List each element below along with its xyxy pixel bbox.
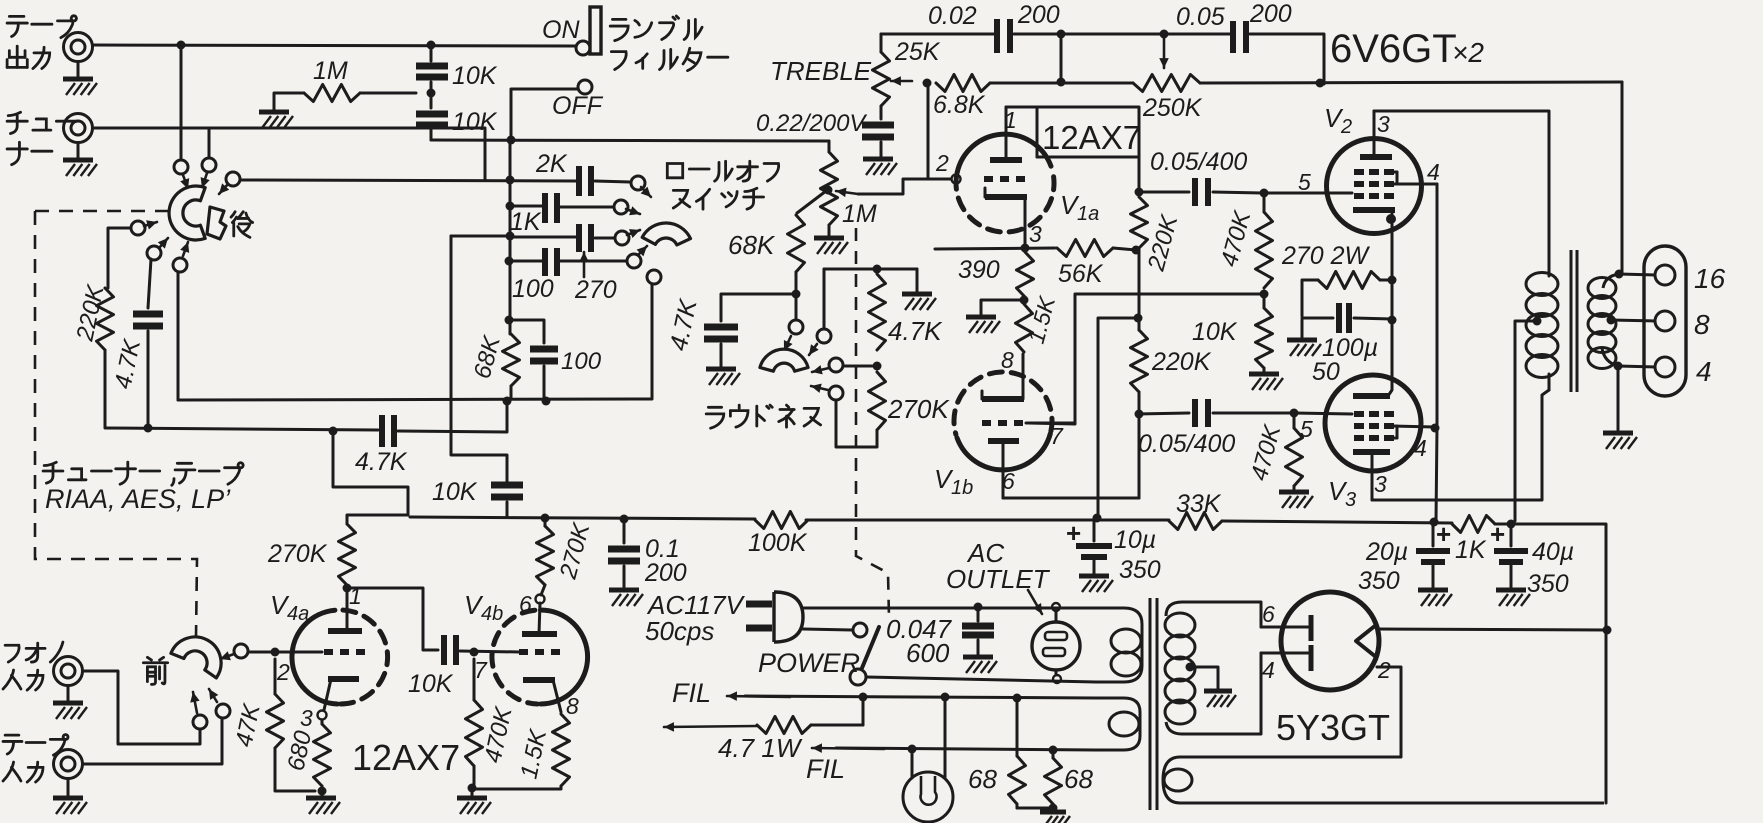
contact selector r4 [131, 220, 157, 235]
svg-text:4b: 4b [481, 603, 503, 625]
label 4.7K coupling [355, 448, 408, 476]
label 100K [748, 529, 808, 557]
wire EQ bus y428 [105, 428, 378, 430]
node top bus to selector [177, 41, 186, 50]
label AC OUTLET [946, 538, 1051, 614]
node V4a plate [343, 584, 352, 593]
wire 0.05 down [1250, 34, 1324, 84]
node bus 40u [1507, 520, 1516, 529]
svg-text:270 2W: 270 2W [1281, 242, 1371, 270]
wire screen drop V2 [1436, 184, 1439, 428]
contact rolloff 4 [627, 246, 647, 268]
svg-text:4.7K: 4.7K [355, 448, 408, 476]
svg-text:350: 350 [1119, 556, 1161, 584]
wire B+ to bus [1098, 318, 1138, 516]
wire AC neutral run [866, 677, 1096, 682]
wire 100cap branch [509, 320, 544, 343]
wire 16 tap [1619, 274, 1655, 275]
wire 1K row [510, 205, 543, 208]
label V2 [1324, 103, 1352, 138]
capacitor 0.047/600 [962, 607, 997, 673]
svg-text:3: 3 [1029, 221, 1042, 247]
node 8ohm [1607, 316, 1616, 325]
svg-text:0.02: 0.02 [928, 2, 977, 30]
wire secondary gnd [1603, 366, 1637, 449]
switch POWER [850, 623, 879, 685]
svg-text:4: 4 [1262, 657, 1275, 683]
grid V4b dashes [519, 649, 561, 655]
svg-text:350: 350 [1358, 567, 1400, 595]
wire 0.02 to 0.05 [1014, 33, 1230, 36]
capacitor 100u [1302, 303, 1392, 333]
node 4ohm [1614, 362, 1623, 371]
wire to 4.7K cap [721, 294, 796, 321]
svg-text:220K: 220K [1151, 348, 1212, 376]
lamp pilot [903, 697, 953, 822]
label V1a [1060, 190, 1099, 225]
wiper arc rolloff [642, 223, 690, 245]
pin7 label V4b [474, 657, 488, 683]
label TREBLE [770, 56, 872, 86]
resistor 6.8K [936, 75, 990, 92]
svg-text:4.7 1W: 4.7 1W [718, 733, 803, 763]
label 68K rolloff [469, 332, 506, 381]
wire 1M wiper to grid [858, 179, 951, 194]
wire signal bus y140 [431, 140, 829, 141]
contact loudness 3 [812, 358, 872, 374]
svg-text:270K: 270K [887, 394, 950, 424]
transformer T2 core [1150, 598, 1157, 810]
wire 56K to divider [1113, 248, 1136, 250]
winding HV secondary [1165, 602, 1259, 734]
wire 100 to contact [559, 260, 626, 263]
outlet AC [1032, 611, 1080, 675]
wire to V3 grid [1294, 413, 1352, 414]
pin1 label V1a [1004, 107, 1017, 133]
wire selector feed A [180, 45, 183, 161]
pin5 wire V2 [1264, 192, 1351, 195]
ground V4b [457, 788, 491, 814]
svg-text:10K: 10K [452, 108, 498, 136]
label 220K input [71, 282, 109, 344]
label 47K [230, 701, 265, 749]
pin1 label V4a [349, 583, 362, 609]
arrow rolloff 1 [641, 187, 651, 197]
pin6 label V4b [519, 591, 532, 617]
svg-text:3: 3 [300, 705, 313, 731]
ground phono jack [53, 686, 87, 719]
svg-text:4.7K: 4.7K [888, 316, 943, 346]
contact front f3 [209, 689, 230, 718]
cathode V3 [1353, 322, 1392, 396]
label 0.1 [644, 535, 687, 587]
svg-text:56K: 56K [1058, 260, 1104, 288]
wire 6.8K to 250K [990, 82, 1133, 85]
node 100cap bottom [542, 397, 551, 406]
contact rolloff pivot [647, 270, 661, 284]
label 1.5K V4b [515, 726, 552, 781]
svg-text:FIL: FIL [806, 754, 845, 784]
svg-text:5Y3GT: 5Y3GT [1276, 707, 1390, 748]
wire 4 tap [1618, 366, 1655, 367]
resistor 220K input [97, 288, 114, 350]
svg-text:2: 2 [276, 659, 290, 685]
ground 10u [1079, 576, 1113, 592]
wire fb to V1b grid [1028, 294, 1264, 424]
tube V1a envelope [956, 134, 1054, 232]
capacitor 10K lower [416, 114, 448, 125]
node row 1K [506, 202, 515, 211]
svg-text:1K: 1K [510, 208, 542, 236]
node V1a cathode [935, 244, 1055, 253]
dashed gang link power [856, 228, 889, 618]
wire tape-in to switch [83, 718, 222, 764]
svg-text:10K: 10K [1192, 318, 1238, 346]
terminal 16 [1655, 263, 1726, 294]
wire 220K input branch [108, 228, 131, 288]
label FIL 2 [806, 754, 845, 784]
wire 4.7K cap out [398, 404, 507, 432]
potentiometer 1M volume [821, 141, 838, 225]
svg-text:68: 68 [968, 764, 997, 794]
svg-text:+: + [1436, 519, 1451, 549]
svg-text:8: 8 [1694, 309, 1710, 340]
label 10u [1114, 526, 1161, 584]
label 10K interstage [408, 670, 454, 698]
svg-text:7: 7 [474, 657, 488, 683]
jack J2 tuner [64, 114, 93, 143]
wire OPT center tap [1515, 317, 1542, 522]
label 270 rolloff [574, 252, 617, 304]
label 10K tone [432, 478, 478, 506]
pin3 label V2 [1377, 111, 1390, 137]
pin6 label V1b [1002, 468, 1015, 494]
screen connector V2 [1394, 172, 1437, 184]
plate V3 [1353, 452, 1390, 500]
label POWER [758, 648, 860, 678]
label 40u [1527, 538, 1574, 598]
svg-text:250K: 250K [1142, 94, 1203, 122]
wire bus to rectifier [1495, 524, 1606, 628]
label 250K [1142, 94, 1203, 122]
wire tone bus c [1222, 521, 1452, 523]
wire HV CT gnd [1196, 667, 1236, 707]
wire 270K to contact4 [836, 400, 877, 447]
grid V4a dashes [324, 649, 366, 655]
label 100u [1312, 334, 1378, 386]
svg-text:40µ: 40µ [1532, 538, 1574, 566]
resistor 68K rolloff [503, 334, 520, 399]
plate V1a [990, 107, 1022, 160]
svg-text:270K: 270K [267, 540, 328, 568]
label V1b [934, 464, 973, 499]
label 200 a [1017, 1, 1060, 29]
label 56K [1058, 260, 1104, 288]
svg-text:4: 4 [1414, 435, 1427, 461]
label front-deck [143, 657, 167, 684]
contact selector r5 [147, 238, 168, 260]
label 680 [282, 728, 317, 773]
node rectifier out [1603, 626, 1612, 635]
svg-text:6: 6 [1002, 468, 1015, 494]
svg-text:0.05/400: 0.05/400 [1138, 430, 1235, 458]
plate V2 [1360, 111, 1392, 157]
wire 1K to contact [559, 206, 614, 209]
label 4.7K input [109, 336, 146, 391]
transformer T1 core [1571, 250, 1577, 392]
svg-text:RIAA, AES, LP’: RIAA, AES, LP’ [45, 484, 231, 514]
wire feedback takeoff [1621, 82, 1624, 272]
label 470K V2 [1216, 207, 1257, 269]
contact selector r1 [174, 160, 189, 189]
label tape-output [7, 16, 76, 69]
cathode V2 [1353, 210, 1395, 278]
svg-text:4a: 4a [287, 603, 309, 625]
capacitor 4.7K input [133, 259, 163, 426]
wire 270 row left [451, 235, 510, 238]
contact selector r3 [219, 172, 240, 194]
tube V4a envelope [292, 610, 388, 704]
grid rows V2 [1354, 172, 1394, 196]
svg-text:50: 50 [1312, 358, 1340, 386]
switch S1 body [590, 7, 601, 54]
wire top feedback [881, 33, 994, 36]
wire HV bottom to plate [1259, 653, 1261, 734]
label 390 [958, 256, 1000, 284]
svg-text:0.05: 0.05 [1176, 3, 1225, 31]
resistor 220K upper [1131, 197, 1148, 248]
wire OFF to bus [511, 89, 578, 140]
label rolloff-switch [667, 161, 778, 209]
ground tape jack [63, 62, 97, 95]
node 270 right [1380, 276, 1397, 285]
label AC117V [645, 590, 746, 646]
node top junction a [1057, 30, 1066, 79]
contact rolloff 1 [631, 176, 645, 190]
label 10K upper [452, 62, 498, 90]
node rolloff par top [505, 262, 514, 334]
svg-text:8: 8 [1001, 347, 1014, 373]
node V4a grid [271, 648, 280, 657]
contact front f2 [190, 692, 207, 729]
svg-text:10K: 10K [452, 62, 498, 90]
svg-text:25K: 25K [894, 38, 941, 66]
label rear-deck [231, 212, 253, 238]
cathode V4b [523, 680, 561, 712]
transformer T1 secondary [1588, 274, 1619, 369]
grid V1a dashes [984, 176, 1026, 182]
capacitor 4.7K loudness [704, 327, 738, 367]
wire tone bus [410, 517, 755, 519]
label 220K upper [1142, 211, 1183, 274]
svg-text:TREBLE: TREBLE [770, 56, 872, 86]
wire 1M to node [360, 92, 416, 95]
capacitor 270 [579, 224, 591, 252]
svg-text:2: 2 [935, 150, 949, 176]
node V1b plate junction [1135, 392, 1144, 498]
node 10u [1093, 514, 1102, 523]
node EQ-Bplus [329, 427, 338, 436]
wire 100cap down [543, 366, 546, 400]
pin4 label 5Y3 [1262, 657, 1275, 683]
capacitor 0.02 [997, 19, 1010, 53]
wire 270K top jog [333, 431, 408, 524]
winding 5V [1163, 757, 1604, 803]
ground tuner jack [63, 143, 97, 176]
capacitor 0.1/200 [608, 519, 640, 588]
node bus 20u [1430, 518, 1439, 527]
wire feedback run [1200, 82, 1622, 83]
capacitor 10K tone [491, 485, 523, 517]
svg-text:270: 270 [574, 276, 617, 304]
tube V2 envelope [1327, 139, 1422, 234]
wire gnd stub loudness [902, 269, 936, 310]
capacitor 10u/350 [1066, 518, 1112, 574]
contact loudness 2 [809, 269, 831, 355]
resistor 1.5K V4b [474, 714, 570, 789]
node fil 68a [1013, 694, 1022, 703]
wire V1b plate run [1003, 497, 1139, 500]
label tuner-tape [43, 462, 243, 485]
wire rolloff wiper out [651, 284, 654, 398]
pin3 label V4a [300, 705, 313, 731]
pin3 ring V4a [318, 711, 327, 720]
node row 100 [505, 257, 514, 266]
wire selector to 2K row [240, 180, 577, 181]
pin8 label V4b [566, 693, 579, 719]
svg-text:0.05/400: 0.05/400 [1150, 148, 1247, 176]
svg-text:6V6GT: 6V6GT [1330, 27, 1457, 71]
wire phono to switch [83, 671, 200, 744]
resistor 270K V4b load [537, 526, 554, 585]
label FIL 1 [672, 678, 711, 708]
label 100 rolloff [512, 275, 554, 303]
label 270K V4b [554, 519, 595, 582]
node bus-OFF [507, 136, 516, 145]
svg-text:5: 5 [1300, 416, 1313, 442]
label phono-in [3, 642, 63, 690]
node on 6.8K wire [1057, 78, 1066, 87]
svg-text:68: 68 [1064, 764, 1093, 794]
node 68K bottom [792, 290, 801, 299]
svg-text:600: 600 [906, 638, 950, 668]
pin6 label 5Y3 [1262, 601, 1275, 627]
svg-text:4: 4 [1427, 159, 1440, 185]
contact selector r6 [173, 242, 189, 272]
resistor 220K lower [1131, 330, 1148, 392]
ground 0.1 cap [609, 590, 643, 606]
jack J3 phono [54, 657, 83, 686]
wire to gnd V1 [966, 300, 1024, 333]
svg-text:1M: 1M [313, 57, 348, 85]
label tuner [7, 112, 76, 164]
label 0.05 [1176, 3, 1225, 31]
svg-text:1K: 1K [1455, 536, 1487, 564]
tube V4b envelope [492, 610, 588, 704]
wire caps to bus [430, 130, 433, 140]
node row 2K [506, 176, 515, 185]
svg-text:2: 2 [1377, 657, 1391, 683]
label 200 b [1249, 0, 1292, 28]
wire V4a grid [248, 651, 322, 654]
wire 8 tap [1611, 320, 1655, 321]
ground 1M pot [814, 225, 848, 254]
label loudness [706, 405, 820, 428]
resistor 4.7 1W [664, 697, 863, 734]
label 1K [510, 208, 542, 236]
node 390-1.5K [1020, 296, 1029, 305]
terminal 8 [1655, 309, 1710, 340]
node V2 grid [1260, 189, 1269, 198]
pin2 ring V1a [952, 175, 961, 184]
svg-text:5: 5 [1298, 169, 1311, 195]
ground 470K V3 [1279, 492, 1313, 508]
wire cap feed [430, 45, 433, 61]
pin3 label V1a [1029, 221, 1042, 247]
svg-text:10K: 10K [408, 670, 454, 698]
label 0.22/200V [756, 110, 867, 137]
wire 2K to contact [595, 181, 630, 182]
svg-text:2: 2 [1340, 116, 1352, 138]
filament 5Y3 [1356, 625, 1376, 657]
node 270K V4b top [541, 514, 550, 527]
label 270K V4a [267, 540, 328, 568]
svg-text:1b: 1b [951, 477, 973, 499]
node V3 grid [1290, 409, 1299, 418]
contact rolloff 3 [615, 229, 640, 245]
node fil 4.7 [859, 693, 868, 702]
switch S1 OFF contact [578, 80, 592, 94]
label 12AX7 top [1042, 119, 1141, 156]
wire 5V return [1605, 630, 1608, 803]
label 4.7K loudness [664, 296, 702, 353]
label V4b [464, 590, 503, 625]
resistor 1.5K V1b [1016, 304, 1033, 352]
jack J4 tape input [54, 750, 83, 779]
wire 270 left [1302, 280, 1318, 316]
resistor 68 a [1009, 698, 1026, 808]
resistor 250K [1133, 75, 1200, 92]
label 100 bypass [561, 348, 602, 375]
tube V3 envelope [1325, 375, 1421, 471]
label 0.047 [886, 614, 953, 668]
pin2 label V1a [935, 150, 949, 176]
pin7 label V1b [1050, 423, 1064, 449]
pin4 label V3 [1414, 435, 1427, 461]
svg-text:20µ: 20µ [1365, 538, 1408, 566]
winding primary T2 [1096, 608, 1142, 682]
wire HV top to plate [1259, 602, 1261, 627]
transformer T1 primary [1526, 255, 1558, 390]
pin5 label V2 [1298, 169, 1311, 195]
resistor 470K V4b grid [466, 659, 483, 788]
label 4.7K series [888, 316, 943, 346]
wire 4.7K top [824, 268, 917, 271]
contact loudness 1 [784, 294, 803, 351]
node 0.1 cap [620, 515, 629, 524]
resistor 390 [1017, 252, 1034, 297]
node B+ branch [1134, 314, 1143, 323]
wire 270 to contact [595, 237, 614, 240]
label 6.8K [933, 91, 986, 119]
node HV center tap [1186, 663, 1195, 672]
ground 10K fb [1249, 374, 1283, 390]
wiper arc loudness [760, 349, 808, 371]
wire 220K to EQ bus [104, 350, 107, 427]
wiper 250K arrow [1159, 38, 1169, 68]
svg-text:3: 3 [1377, 111, 1390, 137]
wire 100 row [509, 260, 543, 263]
